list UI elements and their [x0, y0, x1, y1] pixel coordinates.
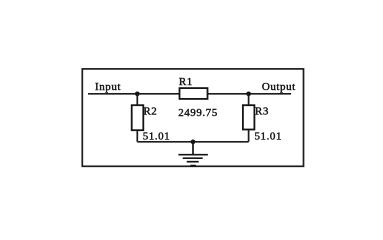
node: input junction — [135, 91, 140, 96]
svg-text:51.01: 51.01 — [255, 131, 283, 143]
svg-text:51.01: 51.01 — [143, 131, 171, 143]
ground — [178, 142, 208, 166]
svg-text:Output: Output — [262, 81, 296, 93]
node: ground junction — [191, 139, 196, 144]
wire: left vertical branch through R2 — [136, 94, 138, 142]
svg-text:R1: R1 — [179, 76, 193, 88]
wire: right vertical branch through R3 — [248, 94, 250, 142]
node: output junction — [246, 91, 251, 96]
svg-text:Input: Input — [95, 81, 121, 93]
svg-text:R2: R2 — [143, 105, 157, 117]
resistor R1 (series) body — [180, 88, 208, 99]
resistor R3 (shunt right) body — [243, 105, 255, 129]
resistor R2 (shunt left) body — [132, 105, 144, 130]
svg-text:R3: R3 — [255, 105, 269, 117]
wire: input line to output (top rail) — [88, 93, 291, 95]
svg-text:2499.75: 2499.75 — [178, 107, 218, 119]
schematic enclosure box — [82, 69, 303, 166]
wire: bottom rail — [137, 141, 248, 143]
